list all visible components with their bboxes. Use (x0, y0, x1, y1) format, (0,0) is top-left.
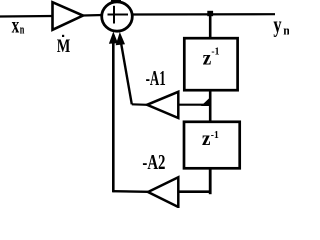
plus sign of summing node (108, 14, 129, 16)
flat mark on top of summing node (111, 0, 121, 3)
arrowhead of -A1 feedback into summing node (116, 32, 125, 45)
wire summing node to output y_n (133, 13, 276, 16)
wire input x_n to amplifier M (0, 15, 53, 18)
svg-text:M: M (57, 36, 71, 57)
junction dot at node between adder output and delay chain (207, 11, 213, 16)
svg-text:x: x (12, 13, 20, 38)
wire tap to -A1 amplifier input (179, 104, 210, 106)
arrowhead of -A2 feedback into summing node (109, 32, 118, 44)
junction mark at tap to -A1 (201, 97, 211, 107)
delay block Z1 (z^-1) (184, 38, 237, 90)
wire diagonal from -A1 up to summing node (120, 37, 132, 104)
svg-text:z: z (202, 128, 211, 150)
svg-text:-A1: -A1 (146, 66, 166, 90)
svg-text:n: n (20, 21, 25, 36)
amplifier -A2 (feedback gain, points left) (148, 177, 178, 207)
wire across to -A2 amplifier input (179, 190, 211, 193)
summing node U1 (adder circle) (102, 2, 133, 31)
value label z^-1 of first delay (203, 47, 220, 70)
amplifier -A1 (feedback gain, points left) (147, 92, 178, 118)
wire -A2 output across bottom (113, 190, 149, 193)
wire junction down to first delay (209, 14, 212, 39)
dot above M (62, 35, 64, 37)
wire second delay down (209, 168, 212, 194)
svg-text:n: n (283, 23, 289, 38)
wire -A1 output to diagonal riser (132, 103, 147, 106)
svg-text:y: y (273, 12, 282, 37)
value label z^-1 of second delay (202, 128, 219, 150)
svg-text:-1: -1 (211, 47, 219, 58)
wire first delay to second delay (209, 90, 212, 122)
svg-text:-A2: -A2 (142, 150, 165, 174)
delay block Z2 (z^-1) (184, 122, 240, 169)
wire amplifier M to summing node (83, 14, 103, 17)
svg-text:z: z (203, 47, 212, 69)
svg-text:-1: -1 (211, 130, 219, 141)
amplifier M (gain triangle) (53, 2, 84, 30)
wire feedback riser up to summing node (112, 35, 115, 192)
